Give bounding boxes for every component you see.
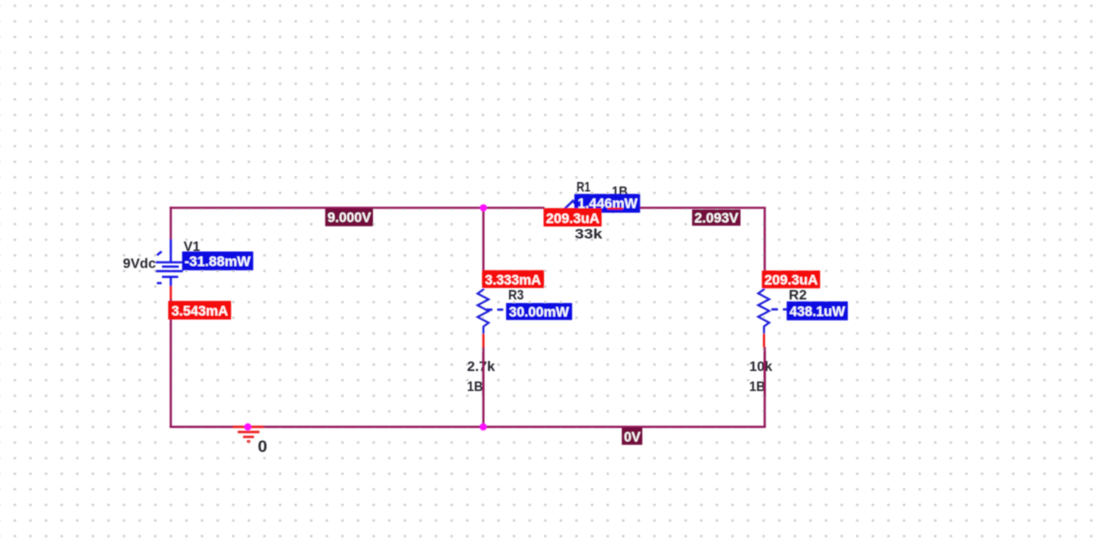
wire bottom horizontal (ground net 0V) <box>170 426 766 428</box>
label 9Vdc <box>123 255 156 271</box>
svg-text:2.093V: 2.093V <box>694 210 739 226</box>
svg-text:-31.88mW: -31.88mW <box>185 253 252 269</box>
R3 dashed leader line <box>486 309 506 311</box>
R1 red pin tick over box <box>608 208 624 210</box>
label V1 <box>184 238 201 254</box>
R2 dashed leader line <box>771 308 789 310</box>
svg-text:R1: R1 <box>577 179 591 195</box>
svg-text:30.00mW: 30.00mW <box>509 304 570 320</box>
svg-text:R3: R3 <box>508 287 524 303</box>
current label 3.543mA <box>168 301 231 320</box>
current label 209.3uA at R2 <box>762 271 820 289</box>
power label 1.446mW <box>574 194 640 213</box>
power label 438.1uW <box>787 301 848 320</box>
junction top middle <box>480 204 487 211</box>
svg-text:9.000V: 9.000V <box>328 209 372 225</box>
svg-text:10k: 10k <box>749 358 772 374</box>
svg-text:0: 0 <box>258 438 268 456</box>
resistor R1 zigzag (horizontal, mostly hidden) <box>565 201 636 212</box>
label 2.7k <box>467 358 495 374</box>
svg-text:3.543mA: 3.543mA <box>172 303 229 319</box>
junction at ground <box>244 423 251 430</box>
wire middle vertical over value labels <box>482 352 484 396</box>
wire top-right horizontal (net at 2.093V) <box>634 207 766 209</box>
label 1B of R3 <box>467 378 483 394</box>
voltage label 9.000V <box>325 209 373 227</box>
svg-text:209.3uA: 209.3uA <box>764 272 818 288</box>
current label 209.3uA at R1 <box>544 208 602 226</box>
svg-text:R2: R2 <box>789 287 807 303</box>
resistor R3 zigzag <box>478 289 489 334</box>
resistor R2 zigzag <box>758 289 769 334</box>
junction bottom middle <box>480 423 487 430</box>
power label -31.88mW <box>182 252 253 271</box>
svg-text:438.1uW: 438.1uW <box>790 303 846 319</box>
voltage source V1 9Vdc battery symbol <box>156 239 183 286</box>
power label 30.00mW <box>506 303 572 320</box>
svg-text:3.333mA: 3.333mA <box>485 271 541 287</box>
label 33k <box>575 226 603 242</box>
label R3 <box>508 287 524 303</box>
label 10k <box>749 358 772 374</box>
wire top-left horizontal (net at 9.000V) <box>170 207 545 209</box>
svg-text:2.7k: 2.7k <box>467 358 495 374</box>
svg-text:33k: 33k <box>575 226 603 242</box>
wire right vertical lower <box>764 347 766 427</box>
voltage label 0V <box>622 428 643 445</box>
label R1 <box>577 179 591 195</box>
wire middle vertical lower <box>482 347 484 427</box>
wire right vertical upper <box>764 208 766 271</box>
svg-text:0V: 0V <box>624 428 641 444</box>
svg-text:209.3uA: 209.3uA <box>546 210 600 226</box>
R2 bottom pin red segment <box>763 334 765 348</box>
wire left vertical lower <box>170 299 172 428</box>
wire left vertical upper <box>170 207 172 240</box>
svg-text:1B: 1B <box>467 378 483 394</box>
label R2 <box>789 287 807 303</box>
R3 bottom pin red segment <box>482 334 484 348</box>
wire middle vertical upper <box>482 208 484 271</box>
current label 3.333mA <box>482 270 544 288</box>
svg-text:9Vdc: 9Vdc <box>123 255 156 271</box>
label 1B of R2 <box>749 378 765 394</box>
wire right vertical over value labels <box>764 352 766 396</box>
V1 bottom pin red segment <box>170 286 172 300</box>
ground symbol 0 <box>233 427 264 442</box>
svg-text:1B: 1B <box>749 378 765 394</box>
voltage label 2.093V <box>692 210 740 226</box>
label 0 (ground) <box>258 438 268 456</box>
label 1B of R1 (partly hidden) <box>612 183 628 199</box>
